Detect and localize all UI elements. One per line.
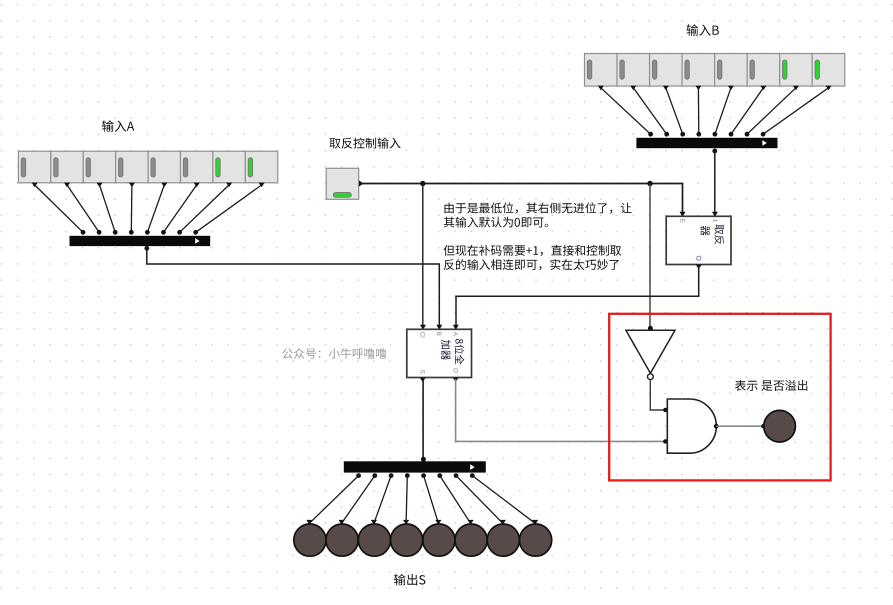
wire control to 取反器 E input bbox=[361, 184, 683, 213]
input pin B5 (switch) bbox=[650, 54, 683, 91]
wire B6 to splitter bbox=[633, 88, 666, 134]
wire junction to NOT gate input bbox=[649, 184, 651, 328]
label 输出S bbox=[394, 574, 425, 586]
input pin A6 (switch) bbox=[51, 151, 83, 187]
node splitter-B in2 bbox=[729, 132, 734, 137]
node splitter-A in7 bbox=[81, 230, 86, 235]
node splitter-S out2 bbox=[437, 473, 442, 478]
input pin A7 (switch) bbox=[18, 151, 50, 187]
input pin A3 (switch) bbox=[148, 151, 180, 187]
wire A1 to splitter bbox=[180, 185, 230, 232]
node splitter-B in5 bbox=[680, 132, 685, 137]
LED S7 bbox=[294, 520, 326, 556]
note text line 4 bbox=[444, 259, 619, 270]
node junction control/CI bbox=[420, 181, 425, 186]
input pin A1 (switch) bbox=[213, 151, 245, 187]
component U2 取反器 bbox=[666, 212, 731, 265]
wire B5 to splitter bbox=[666, 88, 683, 134]
wire A7 to splitter bbox=[35, 185, 83, 232]
LED S4 bbox=[391, 520, 423, 556]
node splitter-B in7 bbox=[648, 132, 653, 137]
wire A6 to splitter bbox=[67, 185, 99, 232]
wire NOT output to AND gate input bbox=[650, 380, 665, 410]
LED overflow output bbox=[764, 410, 796, 442]
name 8位全加器 (rotated) bbox=[441, 339, 464, 365]
input pin B7 (switch) bbox=[585, 54, 618, 91]
splitter bus A bbox=[70, 236, 211, 246]
node splitter-B in1 bbox=[745, 132, 750, 137]
NOT gate U3 bbox=[626, 330, 675, 379]
wire A5 to splitter bbox=[100, 185, 116, 232]
LED S3 bbox=[423, 520, 455, 556]
node AND output bbox=[714, 424, 719, 429]
svg-text:B: B bbox=[435, 332, 442, 336]
LED S5 bbox=[358, 520, 390, 556]
wire S0 to LED bbox=[472, 476, 535, 524]
wire S5 to LED bbox=[374, 476, 391, 524]
wire S1 to LED bbox=[456, 476, 503, 524]
pin adder O output bbox=[453, 378, 459, 383]
highlight rectangle (red) bbox=[609, 314, 830, 481]
node output splitter input bbox=[421, 457, 426, 462]
input pin A4 (switch) bbox=[116, 151, 148, 187]
component U1 8位全加器 bbox=[407, 325, 472, 378]
wire AND output to LED bbox=[716, 425, 763, 427]
input pin A2 (switch) bbox=[181, 151, 213, 187]
input pin B0 (switch) bbox=[812, 54, 845, 91]
wire adder S to output splitter bbox=[422, 379, 424, 459]
node splitter-S out4 bbox=[405, 473, 410, 478]
node splitter-B in3 bbox=[713, 132, 718, 137]
node splitter-A in4 bbox=[129, 230, 134, 235]
wire B4 to splitter bbox=[697, 88, 699, 134]
node junction control/NOT bbox=[647, 181, 652, 186]
svg-text:O: O bbox=[452, 368, 459, 373]
label 取反控制输入 bbox=[330, 138, 401, 149]
wire A0 to splitter bbox=[196, 185, 262, 232]
node bus A output bbox=[144, 246, 149, 251]
wire S2 to LED bbox=[440, 476, 471, 524]
node splitter-S out6 bbox=[372, 473, 377, 478]
wire B7 to splitter bbox=[601, 88, 651, 134]
splitter bus S bbox=[344, 461, 486, 472]
node splitter-A in3 bbox=[145, 230, 150, 235]
wire S6 to LED bbox=[342, 476, 375, 524]
node splitter-S out1 bbox=[454, 473, 459, 478]
input pin B6 (switch) bbox=[617, 54, 650, 91]
label 输入B bbox=[687, 24, 719, 36]
input pin B3 (switch) bbox=[715, 54, 748, 91]
node splitter-B in0 bbox=[761, 132, 766, 137]
node splitter-S out0 bbox=[470, 473, 475, 478]
svg-text:E: E bbox=[679, 219, 686, 223]
input pin B1 (switch) bbox=[780, 54, 813, 91]
node splitter-A in0 bbox=[193, 230, 198, 235]
wire B1 to splitter bbox=[747, 88, 796, 134]
wire bus A to adder B input bbox=[147, 247, 440, 328]
wire A4 to splitter bbox=[130, 185, 133, 232]
LED S2 bbox=[455, 520, 487, 556]
note text line 3 bbox=[444, 245, 622, 256]
input pin A0 (switch) bbox=[245, 151, 277, 187]
pin 取反器 output bbox=[696, 265, 702, 270]
note text line 2 bbox=[444, 217, 549, 228]
svg-text:S: S bbox=[419, 370, 426, 374]
wire B3 to splitter bbox=[715, 88, 731, 134]
node splitter-B in4 bbox=[696, 132, 701, 137]
watermark 公众号：小牛呼噜噜 bbox=[282, 348, 386, 359]
node LED overflow pin bbox=[761, 424, 765, 428]
wire A2 to splitter bbox=[164, 185, 197, 232]
wire bus B to 取反器 input bbox=[714, 149, 716, 213]
label 输入A bbox=[102, 120, 134, 132]
wire 取反器 output to adder A input bbox=[456, 266, 699, 328]
AND gate U4 bbox=[667, 399, 716, 453]
LED S0 bbox=[520, 520, 552, 556]
node splitter-S out7 bbox=[356, 473, 361, 478]
wire A3 to splitter bbox=[147, 185, 164, 232]
node bus B output bbox=[712, 149, 717, 154]
node NOT gate input bbox=[648, 326, 653, 331]
input pin A5 (switch) bbox=[83, 151, 115, 187]
node splitter-S out5 bbox=[389, 473, 394, 478]
note text line 1 bbox=[445, 202, 632, 213]
LED S6 bbox=[326, 520, 358, 556]
node AND input 1 bbox=[663, 408, 667, 412]
pin adder S output bbox=[420, 378, 426, 383]
svg-text:CI: CI bbox=[419, 332, 426, 338]
wire B0 to splitter bbox=[763, 88, 828, 134]
input pin 取反控制 (switch) bbox=[326, 168, 363, 199]
name 取反器 (rotated) bbox=[701, 225, 725, 245]
wire junction to adder CI input bbox=[422, 184, 424, 328]
node splitter-A in2 bbox=[161, 230, 166, 235]
wire S7 to LED bbox=[309, 476, 358, 524]
LED S1 bbox=[487, 520, 519, 556]
splitter bus B bbox=[636, 138, 777, 148]
svg-text:1: 1 bbox=[711, 219, 718, 223]
node splitter-A in6 bbox=[97, 230, 102, 235]
pin label O (取反器 output) bbox=[697, 256, 701, 260]
wire S4 to LED bbox=[406, 476, 407, 524]
wire adder O to AND gate input bbox=[456, 379, 666, 441]
wire B2 to splitter bbox=[731, 88, 763, 134]
node AND input 2 bbox=[663, 439, 667, 443]
label 表示 是否溢出 bbox=[735, 380, 807, 391]
node splitter-S out3 bbox=[421, 473, 426, 478]
input pin B4 (switch) bbox=[682, 54, 715, 91]
wire S3 to LED bbox=[424, 476, 439, 524]
node splitter-A in1 bbox=[177, 230, 182, 235]
input pin B2 (switch) bbox=[747, 54, 780, 91]
node splitter-A in5 bbox=[113, 230, 118, 235]
node splitter-B in6 bbox=[664, 132, 669, 137]
